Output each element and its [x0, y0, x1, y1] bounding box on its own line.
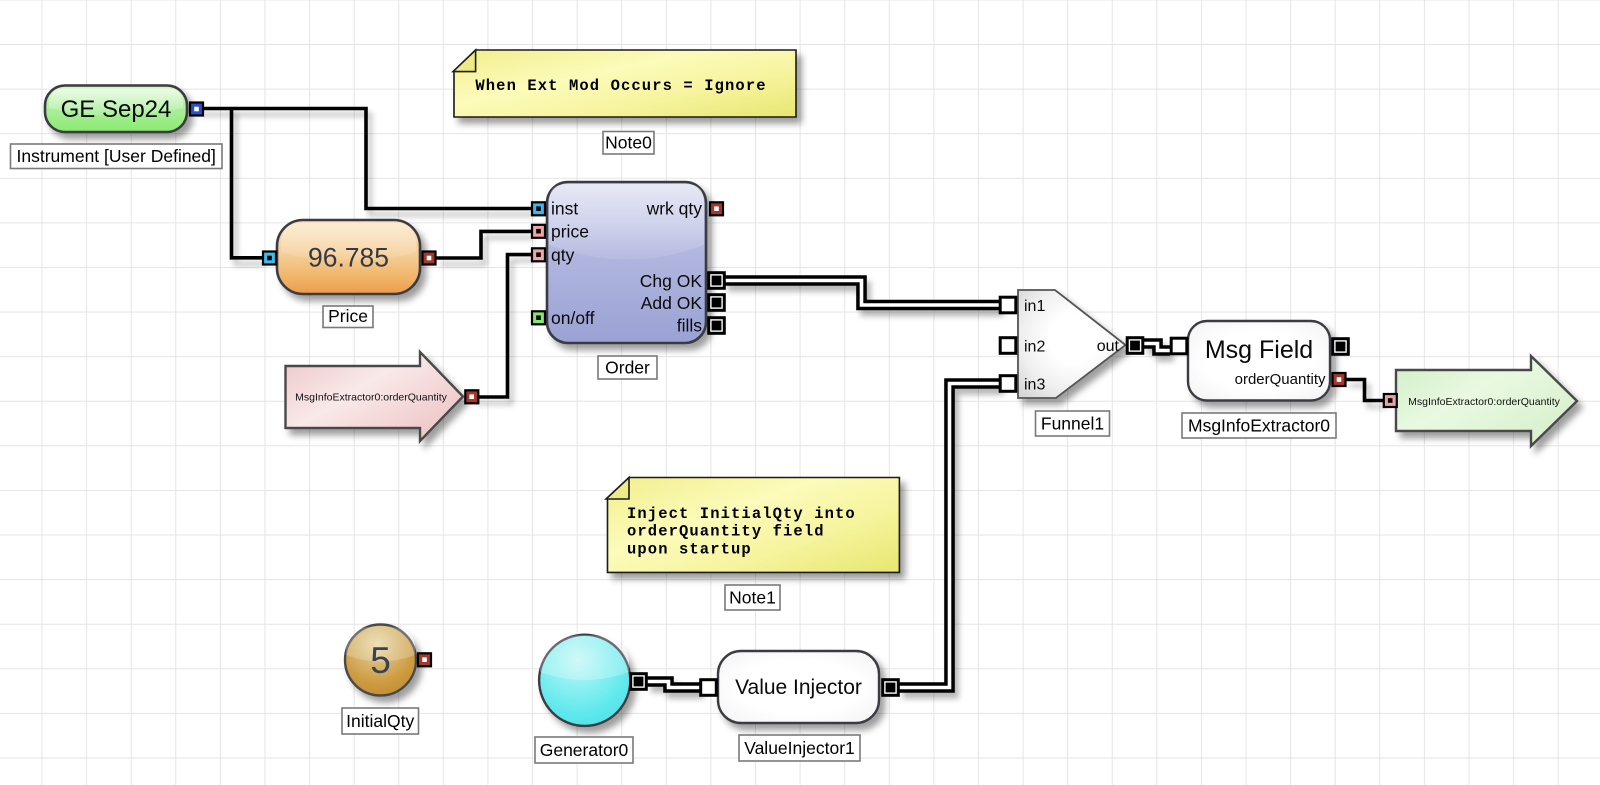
block InitialQty constant 5 (gold ball)	[345, 625, 416, 696]
wire D4: ValueInjector1 out to Funnel1 in3 (hollow double wire)	[899, 384, 1000, 688]
block Funnel1 (funnel pentagon)	[1018, 290, 1126, 398]
port Funnel1 out (flow out, filled)	[1127, 338, 1143, 354]
svg-text:in2: in2	[1024, 339, 1045, 356]
wire W4: MsgInfoExtractor0:orderQuantity arrow out to Order qty	[472, 255, 531, 397]
wire W1: GE Sep24 out to Order inst	[197, 109, 532, 209]
svg-text:in3: in3	[1024, 377, 1045, 394]
block Msg Field (MsgInfoExtractor0)	[1188, 321, 1330, 401]
arrow MsgInfoExtractor0:orderQuantity (pink input arrow)	[286, 352, 464, 441]
svg-text:GE Sep24: GE Sep24	[61, 96, 172, 123]
port Price in (cyan data in)	[263, 252, 276, 265]
wire D3: Generator0 out to ValueInjector1 input (hollow double wire)	[647, 682, 700, 688]
port ValueInjector1 out (flow out, filled)	[883, 680, 899, 696]
label Order	[598, 356, 657, 379]
svg-text:MsgInfoExtractor0:orderQuantit: MsgInfoExtractor0:orderQuantity	[295, 392, 447, 404]
svg-text:Chg OK: Chg OK	[640, 271, 703, 291]
block Generator0 (cyan ball)	[539, 635, 630, 726]
svg-text:Funnel1: Funnel1	[1041, 414, 1104, 434]
svg-text:96.785: 96.785	[308, 243, 389, 273]
svg-text:5: 5	[370, 640, 391, 681]
svg-text:in1: in1	[1024, 298, 1045, 315]
wire W3: Price out to Order price	[437, 231, 532, 258]
svg-text:fills: fills	[677, 316, 703, 336]
svg-text:ValueInjector1: ValueInjector1	[744, 738, 855, 758]
note Note1: "Inject InitialQty into orderQuantity field upon startup"	[606, 478, 899, 573]
wire W2: branch from W1 down to Price input	[232, 107, 263, 258]
block Order (order block)	[547, 182, 706, 343]
port Order inst (blue data in)	[532, 202, 545, 215]
label MsgInfoExtractor0	[1182, 413, 1336, 438]
block Price constant 96.785	[277, 220, 420, 294]
svg-text:MsgInfoExtractor0:orderQuantit: MsgInfoExtractor0:orderQuantity	[1408, 396, 1560, 408]
svg-text:orderQuantity: orderQuantity	[1235, 371, 1326, 388]
port Order fills (flow out, filled)	[709, 318, 725, 334]
svg-text:on/off: on/off	[551, 308, 595, 328]
port InitialQty out (dark red data out)	[418, 653, 431, 666]
label Instrument [User Defined]	[11, 144, 223, 169]
port Order qty (salmon data in)	[532, 248, 545, 261]
note Note0: "When Ext Mod Occurs = Ignore"	[453, 50, 796, 117]
svg-text:upon startup: upon startup	[627, 541, 752, 559]
svg-text:Note0: Note0	[605, 133, 652, 153]
svg-text:wrk qty: wrk qty	[646, 199, 703, 219]
label Generator0	[535, 737, 633, 763]
svg-text:price: price	[551, 222, 589, 242]
arrow MsgInfoExtractor0:orderQuantity (green output arrow)	[1396, 356, 1577, 446]
svg-text:orderQuantity field: orderQuantity field	[627, 523, 825, 541]
block GE Sep24 (Instrument)	[45, 86, 187, 133]
port Generator0 out (flow out, filled)	[631, 674, 647, 690]
port Msg Field out (flow out, filled)	[1333, 339, 1349, 355]
port Funnel1 in1 (flow in, hollow)	[1000, 297, 1016, 313]
block ValueInjector1 (Value Injector)	[718, 651, 879, 723]
label Note1	[725, 585, 780, 610]
port Order Chg OK (flow out, filled)	[709, 273, 725, 289]
port Order price (salmon data in)	[532, 225, 545, 238]
svg-text:qty: qty	[551, 245, 575, 265]
svg-text:Note1: Note1	[729, 588, 776, 608]
port Order Add OK (flow out, filled)	[709, 295, 725, 311]
port Funnel1 in3 (flow in, hollow)	[1000, 376, 1016, 392]
svg-text:out: out	[1097, 338, 1120, 355]
svg-text:InitialQty: InitialQty	[346, 711, 414, 731]
svg-text:inst: inst	[551, 199, 578, 219]
svg-text:Msg Field: Msg Field	[1205, 336, 1313, 364]
svg-text:Generator0: Generator0	[540, 740, 629, 760]
svg-text:Order: Order	[605, 358, 650, 378]
port Msg Field in (flow in, hollow)	[1171, 338, 1187, 354]
wire W5: Msg Field orderQuantity out to green arrow input	[1346, 380, 1383, 401]
label InitialQty	[342, 708, 419, 734]
svg-text:Add OK: Add OK	[641, 293, 703, 313]
label ValueInjector1	[739, 735, 860, 761]
svg-text:When Ext Mod Occurs = Ignore: When Ext Mod Occurs = Ignore	[475, 77, 766, 95]
port Funnel1 in2 (flow in, hollow)	[1000, 338, 1016, 354]
wire D2: Funnel1 out to Msg Field input (hollow double wire)	[1144, 344, 1170, 351]
port Order on/off (green data in)	[532, 311, 545, 324]
svg-text:Value Injector: Value Injector	[735, 676, 862, 699]
svg-text:Price: Price	[328, 306, 368, 326]
svg-text:Instrument [User Defined]: Instrument [User Defined]	[17, 146, 216, 166]
port green arrow in (pink data in)	[1384, 394, 1397, 407]
port Order wrk qty (dark red data out)	[710, 202, 723, 215]
label Price	[323, 306, 373, 328]
label Note0	[603, 132, 654, 155]
port ValueInjector1 in (flow in, hollow)	[701, 680, 717, 696]
port Msg Field orderQuantity (dark red data out)	[1333, 373, 1346, 386]
label Funnel1	[1036, 411, 1110, 436]
port GE out (blue data out)	[190, 103, 203, 116]
port pink arrow out (dark red data out)	[465, 390, 478, 403]
wire D1: Order Chg OK to Funnel1 in1 (hollow double wire)	[724, 281, 1000, 306]
svg-text:MsgInfoExtractor0: MsgInfoExtractor0	[1188, 416, 1330, 436]
port Price out (dark red data out)	[423, 252, 436, 265]
svg-text:Inject InitialQty into: Inject InitialQty into	[627, 505, 856, 523]
